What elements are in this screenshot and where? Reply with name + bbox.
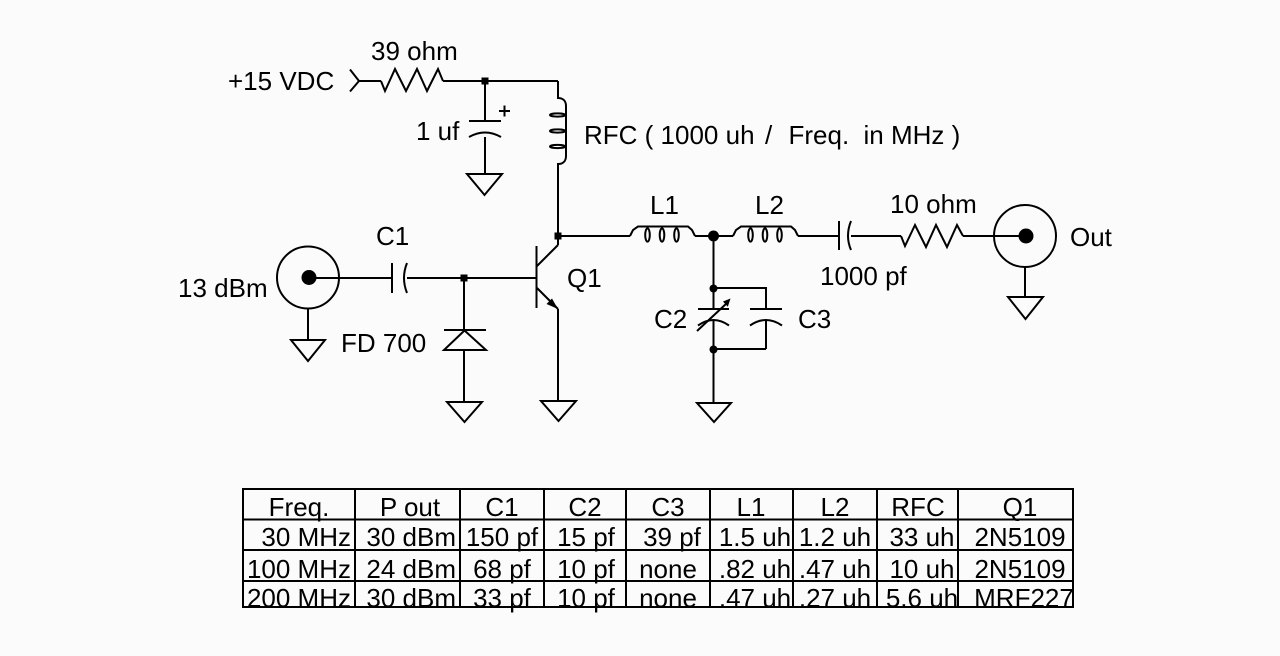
connector Out: [994, 205, 1056, 267]
label 10 ohm: [890, 189, 977, 219]
svg-text:C1: C1: [376, 221, 409, 251]
label Out: [1070, 222, 1113, 252]
label 1000 pf: [820, 261, 908, 291]
connector arrow +15 VDC: [350, 70, 359, 92]
wire: [359, 80, 381, 82]
wire: [307, 309, 309, 341]
wire: [443, 80, 558, 82]
table row 200 MHz: [247, 583, 1074, 613]
wire: [561, 235, 630, 237]
svg-text:C3: C3: [798, 304, 831, 334]
svg-text:L1: L1: [737, 492, 766, 522]
node 13 dBm label: [178, 273, 268, 303]
label Q1: [567, 263, 602, 293]
node +15 VDC label: [228, 66, 334, 96]
wire: [695, 235, 733, 237]
wire: [557, 309, 559, 401]
wire: [851, 235, 901, 237]
svg-text:L1: L1: [650, 190, 679, 220]
svg-text:13 dBm: 13 dBm: [178, 273, 268, 303]
svg-text:Out: Out: [1070, 222, 1113, 252]
svg-text:C1: C1: [485, 492, 518, 522]
label L1: [650, 190, 679, 220]
wire: [963, 235, 1019, 237]
svg-text:none: none: [639, 583, 697, 613]
ground: [291, 340, 325, 361]
junction: [710, 346, 718, 354]
capacitor C2 variable: [697, 299, 731, 332]
capacitor 1 uf: [469, 106, 510, 138]
svg-text:5.6 uh: 5.6 uh: [886, 583, 958, 613]
svg-text:C3: C3: [651, 492, 684, 522]
wire: [484, 81, 486, 121]
svg-text:L2: L2: [821, 492, 850, 522]
svg-text:39 pf: 39 pf: [643, 522, 702, 552]
svg-text:in MHz ): in MHz ): [864, 120, 961, 150]
table header row: [269, 492, 1038, 522]
inductor L2: [733, 227, 798, 242]
svg-text:10 pf: 10 pf: [557, 554, 616, 584]
svg-text:39 ohm: 39 ohm: [371, 36, 458, 66]
label FD 700: [341, 328, 426, 358]
label C3: [798, 304, 831, 334]
ground: [697, 403, 731, 422]
wire: [798, 235, 839, 237]
svg-text:150 pf: 150 pf: [466, 522, 539, 552]
capacitor 1000 pf: [839, 221, 851, 250]
wire: [713, 242, 715, 310]
table row 30 MHz: [261, 522, 1065, 552]
wire: [463, 350, 465, 402]
resistor 10 ohm: [901, 225, 963, 247]
svg-text:1 uf: 1 uf: [416, 116, 460, 146]
svg-text:C2: C2: [568, 492, 601, 522]
svg-text:10 ohm: 10 ohm: [890, 189, 977, 219]
svg-text:Q1: Q1: [1003, 492, 1038, 522]
junction: [482, 78, 489, 85]
capacitor C1: [392, 263, 407, 293]
svg-text:L2: L2: [755, 190, 784, 220]
svg-text:200 MHz: 200 MHz: [247, 583, 351, 613]
svg-text:1.5 uh: 1.5 uh: [719, 522, 791, 552]
resistor 39 ohm: [381, 69, 443, 91]
junction: [708, 231, 719, 242]
junction: [461, 275, 468, 282]
junction: [710, 285, 718, 293]
wire: [714, 348, 767, 350]
label 1 uf: [416, 116, 460, 146]
ground: [541, 401, 576, 421]
wire: [714, 288, 767, 309]
connector 13 dBm input: [277, 247, 339, 309]
wire: [484, 137, 486, 174]
svg-text:.47 uh: .47 uh: [799, 554, 871, 584]
label 39 ohm: [371, 36, 458, 66]
label RFC: [584, 120, 960, 150]
svg-text:10 pf: 10 pf: [557, 583, 616, 613]
label C1: [376, 221, 409, 251]
svg-text:/: /: [765, 120, 773, 150]
wire: [463, 278, 465, 330]
svg-text:+15 VDC: +15 VDC: [228, 66, 334, 96]
svg-text:100 MHz: 100 MHz: [247, 554, 351, 584]
transistor Q1: [537, 233, 559, 309]
capacitor C3: [750, 309, 782, 326]
svg-text:30 MHz: 30 MHz: [261, 522, 351, 552]
svg-text:C2: C2: [654, 304, 687, 334]
svg-text:2N5109: 2N5109: [974, 522, 1065, 552]
svg-text:10 uh: 10 uh: [889, 554, 954, 584]
svg-text:15 pf: 15 pf: [557, 522, 616, 552]
diode FD 700: [444, 330, 486, 350]
ground: [1008, 297, 1043, 319]
svg-text:24 dBm: 24 dBm: [366, 554, 456, 584]
svg-text:RFC: RFC: [891, 492, 944, 522]
inductor RFC: [550, 81, 566, 233]
table row 100 MHz: [247, 554, 1066, 584]
svg-text:33 pf: 33 pf: [473, 583, 532, 613]
svg-text:33 uh: 33 uh: [889, 522, 954, 552]
svg-text:2N5109: 2N5109: [974, 554, 1065, 584]
svg-text:.27 uh: .27 uh: [799, 583, 871, 613]
svg-text:FD 700: FD 700: [341, 328, 426, 358]
inductor L1: [630, 227, 695, 242]
svg-text:30 dBm: 30 dBm: [366, 583, 456, 613]
svg-text:Freq.: Freq.: [789, 120, 850, 150]
svg-text:Q1: Q1: [567, 263, 602, 293]
ground: [447, 402, 482, 422]
svg-text:.47 uh: .47 uh: [719, 583, 791, 613]
wire: [713, 321, 715, 403]
svg-text:Freq.: Freq.: [269, 492, 330, 522]
svg-text:RFC ( 1000 uh: RFC ( 1000 uh: [584, 120, 755, 150]
svg-text:1.2 uh: 1.2 uh: [799, 522, 871, 552]
svg-text:.82 uh: .82 uh: [719, 554, 791, 584]
wire: [309, 277, 392, 279]
table grid: [243, 489, 1073, 607]
svg-text:30 dBm: 30 dBm: [366, 522, 456, 552]
junction: [555, 233, 562, 240]
ground: [467, 174, 502, 195]
svg-text:1000 pf: 1000 pf: [820, 261, 908, 291]
svg-text:MRF227: MRF227: [974, 583, 1074, 613]
svg-text:68 pf: 68 pf: [473, 554, 532, 584]
svg-text:none: none: [639, 554, 697, 584]
label L2: [755, 190, 784, 220]
wire: [407, 277, 536, 279]
label C2: [654, 304, 687, 334]
wire: [765, 321, 767, 350]
svg-text:P out: P out: [380, 492, 441, 522]
wire: [1024, 267, 1026, 297]
